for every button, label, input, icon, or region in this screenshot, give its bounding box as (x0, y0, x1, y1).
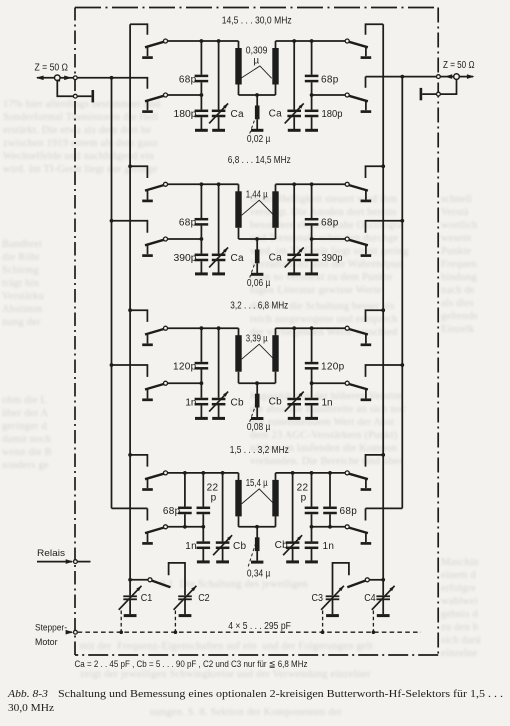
wire bus B' to S2 upper switch (right) (366, 166, 384, 178)
inductor L4b (S4 right coil) (272, 473, 278, 527)
feedthrough on shield (input) (73, 76, 77, 80)
input stub T-bar (coax side) (57, 80, 93, 103)
svg-text:Cb: Cb (231, 397, 245, 408)
svg-text:68p: 68p (321, 218, 339, 229)
node S3 top rail / cap tap (right) (310, 326, 314, 330)
feedthrough on shield (output stub) (437, 92, 441, 96)
capacitor 1n (S3 right) (305, 383, 319, 418)
S4 mid rail left (168, 526, 204, 528)
capacitor 180p (S1 left) (195, 95, 209, 130)
svg-text:120p: 120p (321, 362, 345, 373)
capacitor 120p (S3 right) (305, 328, 319, 383)
dashed pointer 0,06 µ (S2) (250, 264, 255, 278)
svg-text:1n: 1n (322, 397, 333, 408)
svg-text:1,44 µ: 1,44 µ (246, 190, 268, 201)
node bus A' feed S3 (400, 363, 404, 367)
wire coil bottoms link (S3) (239, 382, 276, 384)
relay switch S4 upper left (142, 471, 167, 490)
svg-text:30,0 MHz: 30,0 MHz (8, 703, 55, 714)
wire bus A' to S3 lower switch (right) (366, 365, 403, 377)
svg-text:0,06 µ: 0,06 µ (247, 278, 271, 289)
S1 top rail left (168, 40, 239, 42)
node S4 top rail 22p tap (left) (201, 471, 205, 475)
wire to relay contact (C3 switch) (369, 579, 383, 581)
pointer lines coil value (S4) (242, 489, 274, 504)
shield enclosure border left (dash-dot) (74, 8, 76, 656)
wire output line to bus (366, 76, 437, 78)
svg-text:0,08 µ: 0,08 µ (247, 422, 271, 433)
node gang link C1 (119, 630, 123, 634)
svg-text:Schaltung und Bemessung eines: Schaltung und Bemessung eines optionalen… (58, 689, 503, 700)
capacitor 22p (S4 right) (305, 473, 319, 527)
mechanical link C1 (dashed) (120, 611, 122, 631)
coupling inductor 0,08 µ (S3) (251, 383, 263, 418)
label 22p (S4 right) (297, 483, 309, 504)
svg-text:Cb: Cb (233, 541, 247, 552)
capacitor 180p (S1 right) (305, 95, 319, 130)
svg-text:390p: 390p (174, 253, 197, 264)
relay switch S3 upper right (345, 326, 371, 345)
wire bus B' to S4 upper switch (right) (366, 455, 384, 467)
node gang link C2 (174, 630, 178, 634)
pointer lines coil value (S3) (242, 344, 274, 359)
node output / bus A' junction (400, 75, 404, 79)
dashed pointer 0,02 µ (S1) (250, 120, 255, 134)
relay switch S1 upper left (142, 39, 167, 58)
wire bus A corner stub to S4 lower switch (146, 508, 148, 520)
S3 top rail left (168, 327, 239, 329)
node bus B' feed S2 (381, 164, 385, 168)
node S1 mid rail / cap (left) (200, 93, 204, 97)
node S2 mid rail / cap (left) (200, 237, 204, 241)
wire coil bottoms link (S4) (239, 526, 276, 528)
relay switch S3 lower right (345, 381, 371, 400)
node bus B' feed S4 (381, 453, 385, 457)
svg-text:15,4 µ: 15,4 µ (246, 478, 268, 489)
S4 top rail right (276, 472, 346, 474)
node S4 top rail Cb tap (left) (221, 471, 225, 475)
bus B' (right inner, hot bus to C4) (382, 24, 384, 595)
wire C3 hook terminal (333, 563, 349, 595)
svg-text:Relais: Relais (37, 548, 65, 558)
inductor L1b (S1 right coil) (272, 41, 278, 95)
wire bus B to S4 upper switch (130, 455, 147, 467)
node S2 top rail / cap tap (right) (310, 182, 314, 186)
capacitor 68p (S1 right) (305, 41, 319, 95)
variable capacitor C2 (174, 586, 197, 616)
node S4 mid rail 22p (right) (310, 525, 314, 529)
dashed pointer 0,34 µ (S4) (248, 545, 255, 567)
svg-text:390p: 390p (322, 253, 343, 264)
wire bus A to S3 lower switch (112, 365, 148, 377)
variable capacitor C1 (119, 586, 142, 616)
svg-text:Motor: Motor (35, 637, 58, 647)
node bus B feed S4 (128, 453, 132, 457)
feedthrough on shield (input stub) (73, 94, 77, 98)
relay switch S1 upper right (345, 39, 371, 58)
node S2 top rail / trimmer tap (right) (292, 182, 296, 186)
svg-text:6,8 . . . 14,5 MHz: 6,8 . . . 14,5 MHz (228, 154, 291, 166)
coupling inductor 0,34 µ (S4) (251, 527, 263, 562)
S3 mid rail left (168, 382, 202, 384)
wire bus A' to S2 lower switch (right) (366, 221, 403, 233)
bus B (left inner, hot bus to C1) (129, 24, 131, 595)
wire bus B to S2 upper switch (130, 166, 147, 178)
node bus B feed S3 (128, 308, 132, 312)
svg-text:0,02 µ: 0,02 µ (247, 134, 271, 145)
node S3 mid rail / cap (right) (310, 381, 314, 385)
relay switch S2 lower right (345, 237, 371, 256)
wire coil bottoms link (S1) (239, 94, 276, 96)
wire coil bottoms link (S2) (239, 238, 276, 240)
svg-text:Abb. 8-3: Abb. 8-3 (7, 689, 48, 700)
node S4 top rail Cb tap (right) (291, 471, 295, 475)
capacitor 68p (S1 left) (195, 41, 209, 95)
output stub T-bar (coax side) (421, 79, 457, 100)
bus A' (right outer, output feed) (401, 77, 403, 509)
svg-text:1n: 1n (323, 541, 335, 552)
trimmer capacitor Ca (S1 right) (285, 41, 304, 130)
wire bus A' corner stub to S4 lower switch (right) (365, 508, 367, 520)
bus A (left outer, input feed) (111, 78, 113, 509)
svg-text:Z = 50 Ω: Z = 50 Ω (35, 63, 69, 74)
svg-text:Ca: Ca (231, 109, 245, 120)
svg-text:14,5 . . . 30,0 MHz: 14,5 . . . 30,0 MHz (222, 15, 292, 27)
node S2 mid rail / cap (right) (310, 237, 314, 241)
node S2 top rail / cap tap (left) (200, 182, 204, 186)
svg-text:Z = 50 Ω: Z = 50 Ω (443, 60, 475, 71)
S1 mid rail left (168, 94, 202, 96)
trimmer capacitor Ca (S2 left) (209, 184, 228, 274)
trimmer capacitor Cb (S4 right) (283, 473, 302, 562)
trimmer capacitor Ca (S1 left) (209, 41, 228, 130)
svg-text:68p: 68p (163, 506, 181, 517)
svg-text:180p: 180p (322, 109, 343, 120)
wire to relay contact (C2 switch) (130, 579, 148, 581)
node S1 top rail / cap tap (right) (310, 39, 314, 43)
svg-text:p: p (301, 492, 307, 503)
capacitor 68p (S4 right) (323, 473, 337, 527)
node S3 top rail / cap tap (left) (200, 326, 204, 330)
stepper mechanical gang line (dashed) (78, 631, 421, 633)
svg-text:C1: C1 (141, 593, 153, 604)
node S1 top rail / trimmer tap (left) (217, 39, 221, 43)
variable capacitor C4 (372, 586, 395, 616)
capacitor 1n (S4 right) (305, 527, 319, 562)
node coil link center (S2) (255, 237, 259, 241)
wire bus B' to S3 upper switch (right) (366, 310, 384, 322)
relay switch S1 lower left (142, 93, 167, 112)
node S4 top rail 68p tap (left) (183, 471, 187, 475)
node S3 mid rail / cap (left) (200, 381, 204, 385)
svg-text:Ca = 2 . . 45 pF , Cb = 5 . .: Ca = 2 . . 45 pF , Cb = 5 . . . 90 pF , … (75, 658, 308, 669)
faint bleed-through text from reverse page (3, 98, 198, 176)
wire bus A to S2 lower switch (112, 221, 148, 233)
inductor L2a (S2 left coil) (235, 184, 241, 239)
svg-text:1,5 . . . 3,2 MHz: 1,5 . . . 3,2 MHz (230, 444, 289, 456)
pointer lines coil value (S2) (242, 200, 274, 215)
mechanical link C4 (dashed) (372, 611, 374, 631)
stepper drive line with arrow (66, 630, 74, 635)
node S2 top rail / trimmer tap (left) (217, 182, 221, 186)
capacitor 68p (S2 right) (305, 184, 319, 239)
trimmer capacitor Cb (S3 left) (209, 328, 228, 418)
mechanical link C3 (dashed) (322, 611, 324, 631)
node input / bus A junction (110, 76, 114, 80)
wire input to bus junction (77, 77, 146, 79)
capacitor 22p (S4 left) (197, 473, 211, 527)
S1 mid rail right (312, 94, 346, 96)
bus A' corner to S4 lower switch feed (right) (366, 507, 403, 509)
input terminal Z=50 Ohm (left) (35, 63, 74, 81)
svg-text:1n: 1n (185, 397, 196, 408)
svg-text:68p: 68p (340, 506, 358, 517)
svg-text:µ: µ (253, 55, 259, 66)
capacitor 68p (S2 left) (195, 184, 209, 239)
relay switch contact for C3 (347, 578, 369, 587)
node bus A feed S2 (110, 219, 114, 223)
S4 mid rail right (312, 526, 346, 528)
relay switch contact for C2 (148, 578, 170, 587)
relay switch S4 lower left (142, 525, 167, 544)
pointer lines coil value (S1) (241, 66, 272, 78)
capacitor 1n (S4 left) (197, 527, 211, 562)
node bus A feed S3 (110, 363, 114, 367)
shield enclosure border top (dash-dot) (75, 7, 438, 9)
svg-text:3,39 µ: 3,39 µ (246, 333, 268, 344)
relay switch S1 lower right (345, 93, 371, 112)
node gang link C4 (372, 630, 376, 634)
mechanical link C2 (dashed) (174, 611, 176, 631)
wire bus B to S3 upper switch (130, 310, 147, 322)
node S4 top rail 68p tap (right) (328, 471, 332, 475)
wire output corner down to S1 lower switch (right) (365, 77, 367, 88)
inductor L1a (S1 left coil) (235, 41, 241, 95)
node S4 top rail 22p tap (right) (310, 471, 314, 475)
capacitor 1n (S3 left) (195, 383, 209, 418)
node S3 top rail / trimmer tap (right) (292, 326, 296, 330)
svg-text:1n: 1n (185, 541, 197, 552)
S3 top rail right (276, 327, 346, 329)
svg-text:Ca: Ca (269, 252, 283, 263)
wire C2 hook terminal (169, 563, 185, 595)
relay switch S3 upper left (142, 326, 167, 345)
svg-text:C2: C2 (198, 593, 210, 604)
label Stepper-Motor (35, 623, 67, 648)
relay switch S2 lower left (142, 237, 167, 256)
wire input corner down to S1 lower switch (146, 78, 149, 89)
trimmer capacitor Cb (S3 right) (285, 328, 304, 418)
node coil link center (S4) (255, 525, 259, 529)
label 0,309 µ (S1 coils) (246, 46, 268, 67)
S2 top rail left (168, 183, 239, 185)
S2 mid rail right (312, 238, 346, 240)
capacitor 390p (S2 left) (195, 239, 209, 274)
feedthrough on shield (stepper) (74, 630, 78, 634)
svg-text:Stepper-: Stepper- (35, 623, 67, 633)
svg-text:0,34 µ: 0,34 µ (247, 569, 271, 580)
S1 top rail right (276, 40, 346, 42)
bus A corner to S4 lower switch feed (112, 507, 148, 509)
feedthrough on shield (output) (437, 75, 441, 79)
shield enclosure border bottom (dash-dot) (75, 654, 438, 656)
capacitor 120p (S3 left) (195, 328, 209, 383)
node bus A' feed S2 (400, 219, 404, 223)
node S4 mid rail 68p (right) (328, 525, 332, 529)
svg-text:C4: C4 (364, 593, 376, 604)
S3 mid rail right (312, 382, 346, 384)
relay switch S4 lower right (345, 525, 371, 544)
node bus B feed S2 (128, 164, 132, 168)
svg-text:Cb: Cb (269, 397, 283, 408)
feedthrough on shield (relais) (74, 560, 78, 564)
output terminal Z=50 Ohm (right) (440, 60, 475, 79)
relay switch S2 upper right (345, 182, 371, 201)
node S1 top rail / cap tap (left) (200, 39, 204, 43)
relay switch S2 upper left (142, 182, 167, 201)
svg-text:Cb: Cb (275, 540, 289, 551)
svg-text:68p: 68p (179, 218, 197, 229)
inductor L4a (S4 left coil) (235, 473, 241, 527)
node bus B / C1 switch tap (128, 578, 132, 582)
capacitor 68p (S4 left) (178, 473, 192, 527)
S4 top rail left (168, 472, 239, 474)
node S3 top rail / trimmer tap (left) (217, 326, 221, 330)
node coil link center (S3) (255, 381, 259, 385)
inductor L3a (S3 left coil) (235, 328, 241, 383)
node S1 top rail / trimmer tap (right) (292, 39, 296, 43)
trimmer capacitor Cb (S4 left) (213, 473, 232, 562)
bus B top corner to S1 upper switch (130, 24, 147, 35)
trimmer capacitor Ca (S2 right) (285, 184, 304, 274)
relay switch S4 upper right (345, 471, 371, 490)
svg-text:4 × 5 . . . 295 pF: 4 × 5 . . . 295 pF (228, 621, 291, 632)
S2 top rail right (276, 183, 346, 185)
bus B' top corner to S1 upper switch (right) (366, 24, 384, 35)
relay switch S3 lower left (142, 381, 167, 400)
dashed pointer 0,08 µ (S3) (250, 408, 255, 422)
svg-text:Ca: Ca (231, 253, 245, 264)
S2 mid rail left (168, 238, 202, 240)
coupling inductor 0,02 µ (S1) (251, 95, 263, 130)
shield enclosure border right (dash-dot) (437, 8, 439, 656)
variable capacitor C3 (321, 586, 344, 616)
inductor L2b (S2 right coil) (272, 184, 278, 239)
node S4 mid rail 22p (left) (201, 525, 205, 529)
svg-text:3,2 . . . 6,8 MHz: 3,2 . . . 6,8 MHz (230, 300, 288, 312)
svg-text:p: p (211, 492, 217, 503)
label 22p (S4 left) (207, 483, 219, 504)
capacitor 390p (S2 right) (305, 239, 319, 274)
svg-text:180p: 180p (174, 109, 197, 120)
node coil link center (S1) (255, 93, 259, 97)
coupling inductor 0,06 µ (S2) (251, 239, 263, 274)
svg-text:C3: C3 (312, 593, 324, 604)
svg-text:Ca: Ca (269, 108, 283, 119)
node S1 mid rail / cap (right) (310, 93, 314, 97)
node gang link C3 (321, 630, 325, 634)
node S4 mid rail 68p (left) (183, 525, 187, 529)
node bus B' / C4 switch tap (381, 578, 385, 582)
relais control line with arrow (37, 559, 91, 564)
svg-text:68p: 68p (179, 74, 197, 85)
svg-text:120p: 120p (173, 362, 197, 373)
svg-text:68p: 68p (321, 74, 339, 85)
inductor L3b (S3 right coil) (272, 328, 278, 383)
node bus B' feed S3 (381, 308, 385, 312)
figure caption (7, 689, 503, 714)
